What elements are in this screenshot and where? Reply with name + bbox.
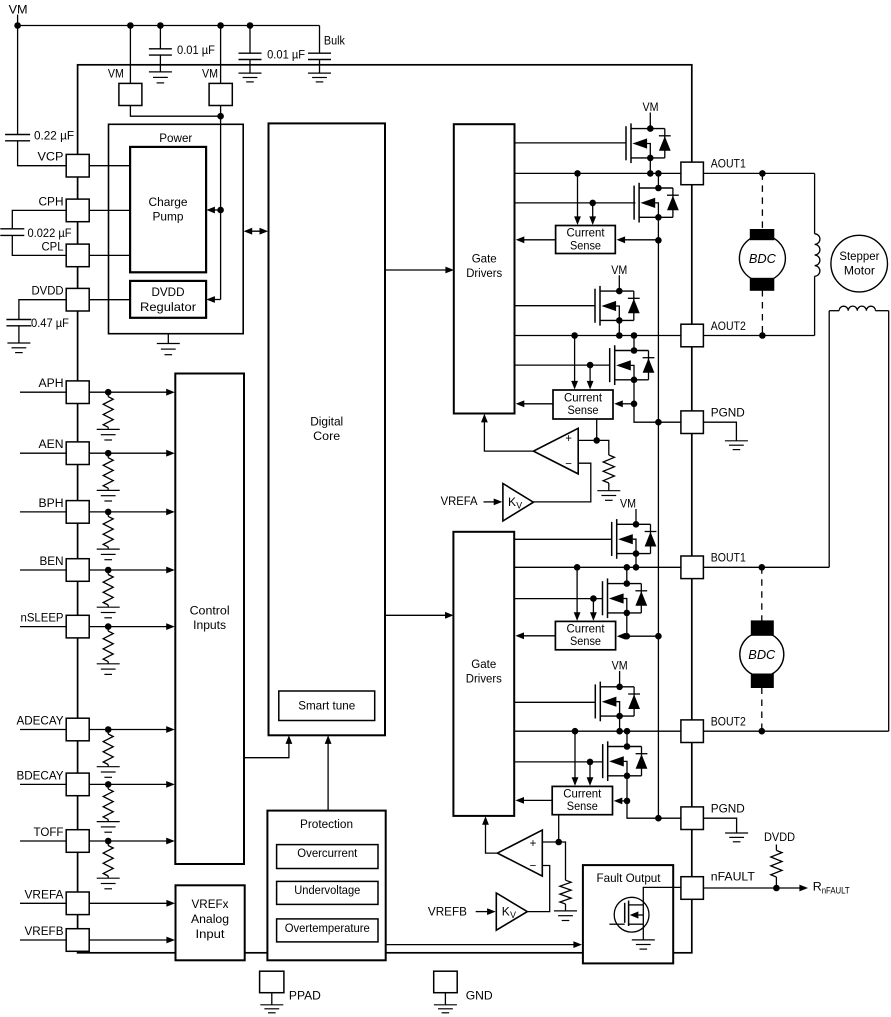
svg-text:CPH: CPH [39, 194, 64, 208]
svg-text:VREFx: VREFx [192, 897, 230, 911]
capacitor 0.01 uF (first) [149, 49, 172, 55]
transistor A1 low-side FET [634, 183, 679, 223]
pin VM (left) [119, 83, 142, 105]
pin BPH [66, 501, 89, 524]
wire below VM pin 2 [220, 106, 222, 117]
svg-text:+: + [565, 433, 572, 445]
arrow VREFA into VREFx block [166, 900, 175, 907]
wire AOUT2 row [515, 335, 682, 337]
junction A2 source sense [631, 401, 638, 408]
arrow Protection to Digital Core [325, 735, 332, 810]
svg-text:Sense: Sense [570, 238, 601, 252]
svg-text:+: + [530, 838, 537, 850]
pin label ADECAY [17, 714, 64, 728]
junction VM pins [217, 113, 224, 120]
wire BEN to Control Inputs [89, 569, 168, 571]
wire fault FET source to ground [642, 924, 644, 940]
junction charge-pump branch [217, 207, 224, 214]
junction AOUT2 motor tap [759, 332, 766, 339]
label Control Inputs [190, 604, 230, 633]
svg-text:VREFB: VREFB [25, 924, 64, 938]
svg-text:Smart tune: Smart tune [298, 699, 355, 713]
pin GND [434, 971, 458, 993]
wire nSLEEP external stub [20, 626, 66, 628]
pin label CPH [39, 194, 64, 208]
junction AOUT1 motor tap [759, 170, 766, 177]
junction B1 low gate sense tap [590, 595, 597, 602]
wire sense to shunt resistor A [597, 440, 609, 455]
pin label VM [202, 67, 218, 81]
value label 0.022 uF [28, 226, 72, 240]
wire gate A1 low-side [515, 202, 636, 204]
resistor nSLEEP pulldown [103, 627, 113, 664]
svg-text:VCP: VCP [38, 150, 64, 164]
pin nSLEEP [66, 615, 89, 638]
junction on VM rail [127, 22, 134, 29]
svg-text:Inputs: Inputs [193, 618, 226, 632]
arrow Current Sense A1 to Gate Drivers [516, 236, 556, 243]
wire into DVDD regulator [212, 299, 221, 301]
junction A2 low drain [631, 332, 638, 339]
arrow BPH into Control Inputs [166, 509, 175, 516]
wire comparator A plus input [578, 439, 597, 441]
svg-text:AEN: AEN [39, 437, 64, 451]
resistor ADECAY pulldown [103, 730, 113, 767]
net label VM (A2 high-side) [611, 263, 627, 277]
svg-text:0.01 µF: 0.01 µF [267, 47, 305, 61]
amplifier KV B [496, 893, 527, 930]
capacitor Bulk [308, 53, 331, 59]
block Undervoltage [277, 881, 378, 904]
block Control Inputs [175, 374, 244, 865]
junction B2 low drain [624, 728, 631, 735]
svg-text:TOFF: TOFF [34, 825, 64, 839]
ground APH pulldown [97, 429, 120, 440]
svg-text:APH: APH [39, 376, 64, 390]
value label 0.47 uF [31, 316, 69, 330]
pin DVDD [66, 288, 89, 311]
arrow BDECAY into Control Inputs [166, 781, 175, 788]
svg-text:Sense: Sense [568, 403, 599, 417]
svg-text:nSLEEP: nSLEEP [21, 611, 64, 625]
pin BOUT1 [681, 556, 704, 579]
wire B1 low-side source to sense [626, 614, 628, 636]
svg-text:VM: VM [643, 100, 659, 114]
svg-text:Control: Control [190, 604, 230, 618]
ground at PGND1 [725, 441, 748, 450]
op-amp comparator A [533, 428, 578, 474]
inductor stepper winding A [815, 173, 820, 335]
wire bulk cap to ground [319, 60, 321, 74]
wire AEN to Control Inputs [89, 452, 168, 454]
resistor TOFF pulldown [103, 841, 113, 878]
pin BOUT2 [681, 720, 704, 743]
label DVDD Regulator [140, 285, 196, 314]
value label 0.01 uF [177, 43, 215, 57]
ground below shunt A [597, 491, 620, 501]
svg-text:−: − [565, 458, 572, 470]
wire comparator B output to Gate Drivers B [486, 820, 498, 853]
wire TOFF to Control Inputs [89, 840, 168, 842]
svg-text:Gate: Gate [472, 252, 497, 266]
transistor B2 low-side FET [603, 741, 648, 781]
svg-text:BDECAY: BDECAY [17, 768, 64, 782]
wire A2 low-side drain [633, 336, 635, 351]
svg-text:BPH: BPH [39, 496, 64, 510]
arrow into DVDD regulator [206, 296, 215, 303]
transistor B1 low-side FET [603, 578, 648, 618]
wire BOUT2 to motor [703, 730, 888, 732]
wire BEN external stub [20, 569, 66, 571]
resistor APH pulldown [103, 392, 113, 429]
junction A2 high source [616, 332, 623, 339]
svg-text:CPL: CPL [42, 239, 64, 253]
wire rail to VM pin 1 [129, 26, 131, 84]
svg-text:VREFA: VREFA [441, 494, 479, 508]
arrow Current Sense B2 to Gate Drivers [515, 797, 552, 804]
capacitor 0.47 uF [6, 320, 31, 326]
pin PGND [681, 411, 704, 434]
label Smart tune [298, 699, 355, 713]
junction on VM rail [157, 22, 164, 29]
svg-text:PPAD: PPAD [289, 989, 321, 1003]
ground BEN pulldown [97, 607, 120, 618]
pin TOFF [66, 830, 89, 853]
wire gate B1 high-side [514, 538, 612, 540]
pin VREFA [66, 892, 89, 915]
block Gate Drivers A [454, 124, 515, 413]
junction BEN pulldown [105, 567, 112, 574]
wire Current Sense B2 to comparator [558, 815, 560, 842]
arrow into charge pump [206, 207, 215, 214]
net label DVDD (pull-up) [764, 830, 795, 844]
wire comparator B plus input [542, 841, 558, 843]
junction PGND2 sense line [655, 815, 662, 822]
wire CPH to flying cap [12, 210, 66, 228]
arrow RnFAULT [799, 885, 808, 892]
wire BDECAY external stub [20, 783, 66, 785]
wire A1 low-side drain [657, 173, 659, 188]
ground ADECAY pulldown [97, 767, 120, 778]
ground below shunt B [554, 911, 577, 921]
wire APH external stub [20, 391, 66, 393]
net label VREFA [441, 494, 479, 508]
arrow Digital Core to Gate Drivers B [385, 612, 454, 619]
svg-text:AOUT1: AOUT1 [711, 157, 746, 171]
net label VREFB [428, 905, 467, 919]
junction B1 low drain [624, 564, 631, 571]
label Overcurrent [297, 846, 358, 860]
svg-text:BDC: BDC [749, 252, 777, 266]
wire BDC A dashed bottom [761, 290, 763, 336]
arrow sense into Current Sense A1 [617, 236, 659, 243]
net label VM (A1 high-side) [643, 100, 659, 114]
block Current Sense A1 [556, 226, 616, 254]
svg-text:Drivers: Drivers [466, 672, 502, 686]
pin CPL [66, 244, 89, 267]
pin BEN [66, 559, 89, 582]
svg-text:VM: VM [202, 67, 218, 81]
wire BDECAY to Control Inputs [89, 783, 168, 785]
wire power block to ground [167, 334, 169, 344]
block Current Sense B1 [555, 621, 615, 649]
svg-text:VM: VM [108, 67, 124, 81]
wire VREFA stub [484, 501, 496, 503]
svg-text:DVDD: DVDD [764, 830, 795, 844]
wire AOUT1 to motor [703, 172, 814, 174]
svg-text:BOUT2: BOUT2 [711, 715, 746, 729]
block Gate Drivers B [453, 532, 514, 816]
arrow Current Sense B1 to Gate Drivers [515, 632, 555, 639]
value label 0.22 uF [34, 128, 74, 142]
junction BPH pulldown [105, 509, 112, 516]
transistor B1 high-side FET [612, 519, 657, 559]
label Protection [300, 817, 353, 831]
svg-text:VM: VM [9, 2, 28, 16]
IC boundary [78, 65, 692, 953]
arrow BEN into Control Inputs [166, 567, 175, 574]
arrow Current Sense B2 down 1 [572, 731, 579, 786]
transistor A1 high-side FET [626, 123, 671, 163]
label VREFx Analog Input [191, 897, 229, 941]
wire DVDD pin to regulator [89, 299, 130, 301]
wire C2 to ground [249, 60, 251, 74]
wire B2 low-side source to PGND [627, 777, 681, 819]
wire rail to bulk capacitor [319, 26, 321, 54]
wire gate A2 high-side [515, 305, 596, 307]
pin label PGND [711, 802, 745, 816]
svg-text:Overcurrent: Overcurrent [297, 846, 358, 860]
wire BPH external stub [20, 511, 66, 513]
label Power [159, 131, 192, 145]
arrow Current Sense B2 down 2 [587, 762, 594, 786]
pin label VREFB [25, 924, 64, 938]
svg-text:Drivers: Drivers [466, 266, 502, 280]
wire comparator B minus input [527, 866, 549, 912]
label Current Sense A2 [564, 390, 603, 417]
ground below Power block [157, 344, 180, 355]
svg-text:Overtemperature: Overtemperature [285, 921, 370, 935]
ground at PGND2 [725, 833, 748, 842]
svg-text:BDC: BDC [748, 648, 776, 662]
svg-text:Core: Core [313, 429, 340, 443]
arrow into Gate Drivers B bottom [482, 816, 489, 825]
wire BDC A dashed top [761, 173, 763, 230]
pin label BDECAY [17, 768, 64, 782]
arrow into Gate Drivers A bottom [481, 414, 488, 423]
junction B2 high source [616, 728, 623, 735]
pin PPAD [260, 971, 284, 993]
wire PPAD to ground [271, 993, 273, 1005]
arrow ADECAY into Control Inputs [166, 726, 175, 733]
wire shunt A to ground [608, 483, 610, 491]
pin label PGND [711, 406, 745, 420]
svg-text:Motor: Motor [844, 264, 875, 278]
pin label CPL [42, 239, 64, 253]
block Protection [267, 811, 385, 961]
svg-text:Fault Output: Fault Output [597, 871, 662, 885]
wire BDC B dashed bottom [761, 688, 763, 732]
block Overtemperature [277, 919, 378, 942]
svg-text:BOUT1: BOUT1 [711, 551, 746, 565]
arrow AEN into Control Inputs [166, 450, 175, 457]
ground BPH pulldown [97, 549, 120, 560]
wire VREFB external stub [20, 939, 66, 941]
arrow into Fault Output [573, 941, 582, 948]
pin label GND [466, 989, 493, 1003]
svg-text:Input: Input [196, 927, 226, 941]
transistor fault open-drain FET [609, 897, 649, 932]
junction ADECAY pulldown [105, 726, 112, 733]
svg-text:VREFB: VREFB [428, 905, 467, 919]
junction APH pulldown [105, 389, 112, 396]
wire PGND1 to ground [703, 422, 736, 441]
pin AOUT1 [681, 162, 704, 185]
svg-text:0.47 µF: 0.47 µF [31, 316, 69, 330]
arrow Current Sense A2 down 1 [571, 336, 578, 390]
svg-text:Gate: Gate [471, 657, 496, 671]
svg-text:0.022 µF: 0.022 µF [28, 226, 72, 240]
inductor stepper winding B [829, 306, 889, 731]
wire 0.47uF cap to ground [18, 326, 20, 343]
wire BDC B dashed top [761, 567, 763, 621]
junction sense line at current sense A1 [655, 237, 662, 244]
svg-text:VREFA: VREFA [25, 887, 65, 901]
arrow Current Sense A1 down 2 [589, 203, 596, 225]
wire below VM pin 1 [130, 106, 220, 117]
junction B1 source sense [624, 633, 631, 640]
block Current Sense B2 [552, 786, 612, 814]
pin BDECAY [66, 773, 89, 796]
pin AEN [66, 442, 89, 465]
svg-text:Bulk: Bulk [324, 33, 346, 47]
ground below C2 [239, 73, 262, 82]
wire VM to A2 high-side FET [618, 275, 620, 291]
pin label BOUT2 [711, 715, 746, 729]
junction BOUT1 sense tap [574, 564, 581, 571]
wire gate A2 low-side [515, 364, 610, 366]
wire ADECAY to Control Inputs [89, 729, 168, 731]
arrow VREFB into VREFx block [166, 937, 175, 944]
pin ADECAY [66, 718, 89, 741]
ground below C1 [149, 72, 172, 83]
wire B1 sense to sense line [627, 635, 659, 637]
amplifier KV A [503, 484, 534, 522]
svg-text:K: K [508, 495, 516, 509]
label Digital Core [310, 415, 343, 444]
junction on VM rail [14, 22, 21, 29]
ground in Fault Output [632, 940, 655, 949]
value label RnFAULT [813, 880, 851, 896]
pin VREFB [66, 929, 89, 952]
junction comparator B plus input [555, 839, 562, 846]
svg-text:GND: GND [466, 989, 493, 1003]
svg-text:Stepper: Stepper [839, 249, 879, 263]
arrow Current Sense B1 down 2 [590, 599, 597, 621]
wire VM to A1 high-side FET [649, 113, 651, 129]
pin PGND [681, 807, 704, 830]
svg-text:Pump: Pump [153, 210, 184, 224]
wire TOFF external stub [20, 840, 66, 842]
wire VREFB to VREFx block [89, 939, 168, 941]
junction A1 low gate sense tap [589, 200, 596, 207]
wire VREFB stub [476, 911, 489, 913]
pin label VREFA [25, 887, 65, 901]
svg-text:Analog: Analog [191, 912, 229, 926]
label Undervoltage [294, 883, 360, 897]
pin VCP [66, 154, 89, 177]
ground BDECAY pulldown [97, 822, 120, 833]
svg-text:V: V [516, 501, 522, 511]
arrow into Digital Core bottom [286, 735, 293, 744]
pin label BEN [40, 554, 64, 568]
wire A1 high-side source to AOUT1 [649, 158, 651, 174]
wire APH to Control Inputs [89, 391, 168, 393]
svg-text:BEN: BEN [40, 554, 64, 568]
pin label VCP [38, 150, 64, 164]
pin label BOUT1 [711, 551, 746, 565]
svg-text:DVDD: DVDD [32, 284, 64, 298]
svg-text:VM: VM [612, 658, 628, 672]
wire gate B1 low-side [514, 598, 602, 600]
pin label BPH [39, 496, 64, 510]
wire BOUT1 to motor [703, 566, 829, 568]
svg-text:Sense: Sense [567, 799, 598, 813]
resistor RnFAULT pull-up [771, 845, 782, 889]
block Current Sense A2 [553, 390, 613, 419]
transistor A2 low-side FET [610, 345, 655, 385]
wire sense to shunt resistor B [559, 842, 566, 880]
wire CPH to charge pump [89, 209, 130, 211]
wire B1 high-side source to BOUT1 [635, 554, 637, 567]
label Current Sense B1 [567, 622, 606, 649]
junction AEN pulldown [105, 450, 112, 457]
bidirectional arrow Power - Digital Core [244, 228, 269, 235]
label Bulk [324, 33, 346, 47]
arrow Current Sense B1 down 1 [574, 567, 581, 621]
svg-text:nFAULT: nFAULT [822, 886, 851, 896]
label Charge Pump [149, 195, 188, 224]
svg-text:Protection: Protection [300, 817, 353, 831]
arrow Digital Core to Gate Drivers A [385, 267, 454, 274]
junction BDECAY pulldown [105, 781, 112, 788]
wire flying cap to CPL [12, 235, 66, 255]
arrow Current Sense A2 down 2 [587, 365, 594, 389]
ground nSLEEP pulldown [97, 664, 120, 675]
svg-text:0.22 µF: 0.22 µF [34, 128, 74, 142]
pin APH [66, 381, 89, 404]
label Overtemperature [285, 921, 370, 935]
ground below bulk capacitor [308, 73, 331, 82]
junction BOUT1 motor tap [759, 564, 766, 571]
wire BOUT2 row [514, 730, 681, 732]
pin label AOUT1 [711, 157, 746, 171]
svg-text:nFAULT: nFAULT [711, 870, 755, 884]
junction A1 low drain [655, 170, 662, 177]
ground TOFF pulldown [97, 878, 120, 889]
pin nFAULT [681, 877, 704, 900]
block Fault Output [583, 865, 673, 963]
junction BOUT2 motor tap [759, 728, 766, 735]
svg-text:Undervoltage: Undervoltage [294, 883, 360, 897]
svg-text:0.01 µF: 0.01 µF [177, 43, 215, 57]
junction B2 low gate sense tap [587, 759, 594, 766]
wire B1 low-side drain [626, 567, 628, 583]
arrow sense into Current Sense B1 right [617, 633, 627, 640]
ground below GND [434, 1005, 457, 1013]
label Current Sense B2 [563, 787, 602, 814]
svg-text:Charge: Charge [149, 195, 188, 209]
